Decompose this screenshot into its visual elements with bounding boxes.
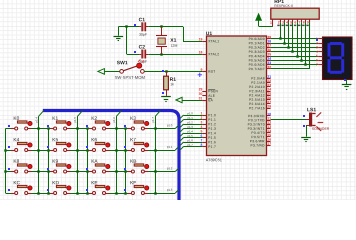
svg-text:P3.5/T1: P3.5/T1 (251, 135, 264, 139)
terminal (input arrow) at EA (176, 97, 182, 102)
svg-text:17: 17 (267, 142, 271, 146)
net label p1.7 (column 3) (151, 117, 155, 123)
svg-text:KB: KB (130, 159, 136, 165)
svg-text:7: 7 (201, 138, 203, 142)
wire P0.6 from U1 to 7-seg display (271, 64, 319, 66)
svg-text:14: 14 (267, 129, 271, 133)
svg-text:1: 1 (201, 111, 203, 115)
svg-text:9: 9 (201, 68, 203, 72)
svg-text:P1.7: P1.7 (208, 145, 216, 149)
wire keypad column 1 (p1.5 net) (77, 111, 82, 193)
junction column 3 row at y=193.0 (154, 192, 156, 194)
svg-text:P0.3/AD3: P0.3/AD3 (249, 50, 265, 54)
svg-text:3: 3 (201, 120, 203, 124)
svg-text:ALE: ALE (208, 94, 215, 98)
pin-end marker display common (344, 79, 346, 81)
junction chain 1 row 0 (47, 127, 49, 129)
wire RP1 pin 4 down to P0.2 net (288, 22, 290, 47)
wire keypad row 2 (p1.2 net) (6, 168, 179, 171)
label KB (130, 159, 136, 165)
pin-end marker K0 (8, 125, 10, 127)
value RESPACK-8 (274, 4, 293, 8)
svg-text:8: 8 (303, 20, 305, 24)
capacitor C2 (139, 50, 148, 59)
push button K7 (128, 142, 149, 151)
svg-text:XTAL1: XTAL1 (208, 39, 219, 43)
label KD (52, 180, 59, 186)
junction RP1 wire / P0.2 wire (287, 46, 289, 48)
RP1 pin 1 (common) stub (272, 19, 274, 26)
value C2 30pF (139, 60, 147, 64)
push button K6 (89, 142, 110, 151)
wire keypad column 3 (p1.7 net) (155, 111, 160, 193)
label K1 (52, 116, 58, 122)
wire P0.1 from U1 to 7-seg display (271, 43, 319, 45)
svg-text:KE: KE (91, 180, 97, 186)
RP1 pin number 1 (270, 21, 272, 25)
junction RP1 wire / P0.3 wire (291, 50, 293, 52)
value LS1 SOUNDER (312, 127, 330, 131)
svg-text:7: 7 (316, 63, 318, 67)
svg-text:K8: K8 (13, 159, 19, 165)
push button KF (128, 185, 149, 194)
svg-text:XTAL2: XTAL2 (208, 52, 219, 56)
label K4 (13, 137, 19, 143)
U1 pin 19 (XTAL1) with pin number (199, 37, 220, 43)
svg-text:P1.4: P1.4 (208, 131, 216, 135)
junction (C1 net / ground branch) (125, 25, 127, 27)
bus P1 (keypad) (43, 111, 179, 201)
wire XTAL2 net: C2 to X1 bottom to U1 pin 18 (127, 54, 203, 56)
U1 pin 7 (P1.6) with pin number (201, 138, 217, 144)
ground (below R1) (161, 96, 171, 102)
wire LS1 to ground (306, 126, 308, 137)
label RP1 (274, 0, 284, 5)
pin-end marker K7 (124, 146, 126, 148)
wire keypad left-pin chain column 1 (48, 129, 50, 194)
svg-text:11: 11 (267, 117, 271, 121)
svg-text:p1.0: p1.0 (167, 123, 173, 127)
label K2 (91, 116, 97, 122)
wire terminal to SW1 (105, 71, 120, 73)
U1 pin 30 (ALE) with pin number (199, 92, 216, 98)
wire RP1 pin 6 down to P0.4 net (297, 22, 299, 56)
RP1 pin 5 stub with pin number (290, 19, 293, 26)
pin-end marker R1 bottom (162, 92, 164, 94)
net label p1.3 (187, 125, 193, 129)
junction column 0 row at y=150.0 (37, 149, 39, 151)
svg-text:P1.0: P1.0 (208, 113, 216, 117)
junction RP1 wire / P0.1 wire (283, 42, 285, 44)
wire ground branch down to C2 net (126, 27, 128, 54)
junction column 2 row at y=128.5 (115, 127, 117, 129)
junction chain 2 row 3 (86, 192, 88, 194)
power terminal VCC to RP1 common (256, 14, 273, 27)
svg-text:P3.1/TXD: P3.1/TXD (248, 118, 265, 122)
U1 pin 36 (P0.3/AD3) with pin number (249, 48, 272, 54)
wire RP1 pin 2 down to P0.0 net (280, 22, 282, 39)
svg-text:5: 5 (290, 20, 292, 24)
display pin 1 (316, 37, 322, 41)
junction column 3 row at y=171.5 (154, 170, 156, 172)
svg-text:p1.4: p1.4 (187, 129, 193, 133)
svg-text:2: 2 (278, 20, 280, 24)
junction column 0 row at y=193.0 (37, 192, 39, 194)
junction (RST net / R1 top) (165, 70, 167, 72)
svg-text:P0.5/AD5: P0.5/AD5 (249, 58, 265, 62)
wire terminal to U1 EA pin 31 (182, 100, 202, 102)
SW1 momentary marks (138, 60, 144, 63)
wire keypad left-pin chain column 3 (125, 129, 127, 194)
wire bus entry to U1 P1.1 (180, 120, 202, 123)
junction column 1 row at y=171.5 (76, 170, 78, 172)
svg-text:19: 19 (199, 37, 203, 41)
label KA (91, 159, 98, 165)
wire XTAL1 net: ground to C1 to X1 to U1 pin 19 (118, 27, 202, 42)
RP1 pin 9 stub with pin number (306, 19, 309, 26)
junction column 2 row at y=171.5 (115, 170, 117, 172)
pin-end marker C1 (134, 24, 136, 26)
U1 pin 10 (P3.0/RXD) with pin number (248, 112, 271, 118)
junction column 1 row at y=193.0 (76, 192, 78, 194)
U1 pin 34 (P0.5/AD5) with pin number (249, 57, 272, 63)
wire SW1 to R1 to U1 RST pin 9 (144, 71, 202, 73)
label K5 (52, 137, 58, 143)
pin-end marker R1 top (162, 70, 164, 72)
pin-end marker K4 (8, 146, 10, 148)
junction RP1 wire / P0.4 wire (296, 55, 298, 57)
pin-end marker C2 (134, 51, 136, 53)
junction column 3 row at y=128.5 (154, 127, 156, 129)
display pin 3 (316, 45, 322, 49)
junction RP1 wire / P0.0 wire (279, 37, 281, 39)
pin-end marker K1 (47, 125, 49, 127)
svg-text:P3.7/RD: P3.7/RD (251, 143, 266, 147)
label R1 (170, 77, 177, 83)
svg-text:16: 16 (267, 138, 271, 142)
svg-text:KD: KD (52, 180, 59, 186)
wire bus entry to U1 P1.2 (180, 124, 202, 127)
push button KC (11, 185, 32, 194)
wire keypad left chain (column 0 left pins) (5, 129, 7, 194)
svg-text:5: 5 (316, 54, 318, 58)
pin-end marker K2 (86, 125, 88, 127)
svg-text:7: 7 (299, 20, 301, 24)
svg-text:P2.5/A13: P2.5/A13 (249, 98, 265, 102)
label U1 (206, 31, 213, 37)
junction column 3 row at y=150.0 (154, 149, 156, 151)
U1 pin 6 (P1.5) with pin number (201, 134, 217, 140)
U1 pin 29 (PSEN) with pin number (199, 87, 219, 93)
svg-text:P1.3: P1.3 (208, 127, 216, 131)
junction (C1 right / X1 top / XTAL1) (160, 25, 162, 27)
U1 pin 2 (P1.1) with pin number (201, 116, 217, 122)
svg-text:15: 15 (267, 133, 271, 137)
svg-text:30pF: 30pF (139, 33, 147, 37)
net label p1.3 (row 3) (167, 188, 173, 192)
RP1 pin 4 stub with pin number (286, 19, 289, 26)
svg-text:p1.3: p1.3 (167, 188, 173, 192)
svg-text:3: 3 (316, 45, 318, 49)
U1 pin 26 (P2.5/A13) with pin number (249, 96, 271, 102)
svg-text:1: 1 (270, 21, 272, 25)
wire P3.1 to LS1 (271, 119, 306, 121)
net label p1.4 (column 0) (34, 117, 38, 123)
svg-text:p1.7: p1.7 (151, 117, 155, 123)
junction RP1 wire / P0.6 wire (304, 63, 306, 65)
ground (below LS1) (301, 136, 311, 142)
RP1 pin 2 stub with pin number (277, 19, 280, 26)
svg-text:P0.0/AD0: P0.0/AD0 (249, 37, 265, 41)
junction chain 1 row 2 (47, 170, 49, 172)
net label p1.7 (187, 143, 193, 147)
junction left chain row 2 (4, 170, 6, 172)
wire P0.2 from U1 to 7-seg display (271, 47, 319, 49)
svg-text:K7: K7 (130, 137, 136, 143)
net label p1.6 (column 2) (112, 117, 116, 123)
net label p1.0 (187, 111, 193, 115)
U1 pin 14 (P3.4/T0) with pin number (251, 129, 271, 135)
label K8 (13, 159, 19, 165)
label KC (13, 180, 20, 186)
pin-end marker display pin 1 (316, 39, 318, 41)
wire RP1 pin 7 down to P0.5 net (301, 22, 303, 60)
U1 pin 9 (RST) with pin number (201, 68, 216, 74)
display pin 6 (316, 58, 322, 62)
net label p1.6 (187, 138, 193, 142)
svg-text:P2.7/A15: P2.7/A15 (249, 106, 265, 110)
wire keypad row 1 (p1.1 net) (6, 147, 179, 151)
svg-text:P2.4/A12: P2.4/A12 (249, 93, 265, 97)
U1 pin 12 (P3.2/INT0) with pin number (248, 121, 272, 127)
net label p1.4 (187, 129, 193, 133)
RP1 pin 6 stub with pin number (294, 19, 298, 26)
crystal X1 (156, 27, 167, 54)
svg-text:P3.0/RXD: P3.0/RXD (248, 114, 265, 118)
wire keypad row 0 (p1.0 net) (6, 125, 179, 128)
wire P0.3 from U1 to 7-seg display (271, 51, 319, 53)
svg-text:K2: K2 (91, 116, 97, 122)
svg-text:P2.6/A14: P2.6/A14 (249, 102, 265, 106)
pin-end marker KF (124, 189, 126, 191)
svg-text:5: 5 (201, 129, 203, 133)
7-segment display body (323, 37, 353, 80)
junction chain 1 row 1 (47, 149, 49, 151)
wire bus entry to U1 P1.3 (180, 129, 202, 132)
svg-text:1k: 1k (170, 82, 174, 86)
U1 pin 32 (P0.7/AD7) with pin number (249, 65, 272, 71)
svg-text:p1.4: p1.4 (34, 117, 38, 123)
svg-text:13: 13 (267, 125, 271, 129)
7-segment digit 8 (lit segments) (328, 42, 345, 74)
label K9 (52, 159, 58, 165)
svg-text:4: 4 (286, 20, 288, 24)
pin-end marker KC (8, 189, 10, 191)
svg-text:SOUNDER: SOUNDER (312, 127, 330, 131)
pin-end marker LS1 bottom (303, 125, 305, 127)
svg-text:10: 10 (267, 112, 271, 116)
pin-end marker K5 (47, 146, 49, 148)
wire keypad column 0 (p1.4 net) (39, 111, 44, 193)
svg-text:P2.0/A8: P2.0/A8 (251, 76, 265, 80)
junction chain 2 row 0 (86, 127, 88, 129)
display pin 4 (316, 50, 322, 54)
net label p1.1 (row 1) (167, 145, 173, 149)
push button KE (89, 185, 110, 194)
svg-text:4: 4 (316, 50, 318, 54)
RP1 pin 3 stub with pin number (281, 19, 284, 26)
svg-text:p1.6: p1.6 (187, 138, 193, 142)
junction chain 2 row 1 (86, 149, 88, 151)
resistor pack RP1 (271, 8, 319, 19)
U1 pin 28 (P2.7/A15) with pin number (249, 104, 271, 110)
svg-text:p1.5: p1.5 (187, 134, 193, 138)
svg-text:LS1: LS1 (307, 107, 316, 113)
display pin 7 (316, 63, 322, 67)
U1 pin 24 (P2.3/A11) with pin number (249, 87, 271, 93)
junction RP1 wire / P0.5 wire (300, 59, 302, 61)
wire bus entry to U1 P1.0 (180, 115, 202, 118)
junction column 0 row at y=128.5 (37, 127, 39, 129)
junction column 2 row at y=150.0 (115, 149, 117, 151)
svg-text:AT89C51: AT89C51 (206, 157, 222, 162)
pin-end marker KE (86, 189, 88, 191)
resistor R1 (164, 71, 169, 95)
svg-text:p1.7: p1.7 (187, 143, 193, 147)
svg-text:28: 28 (267, 104, 271, 108)
wire P0.7 from U1 to RP1 (271, 68, 310, 70)
pin-end marker LS1 top (303, 115, 305, 117)
SW1 red actuator ball (137, 63, 142, 68)
svg-text:EA: EA (208, 98, 213, 102)
U1 pin 37 (P0.2/AD2) with pin number (249, 44, 272, 50)
U1 pin 5 (P1.4) with pin number (201, 129, 217, 135)
ground (below display) (342, 80, 352, 90)
pin-end marker KA (86, 168, 88, 170)
sounder LS1 (306, 112, 323, 131)
svg-text:P0.7/AD7: P0.7/AD7 (249, 67, 265, 71)
junction left chain row 1 (4, 149, 6, 151)
value SW1 SW-SPST-MOM (115, 75, 146, 80)
U1 pin 33 (P0.6/AD6) with pin number (249, 61, 272, 67)
label K3 (130, 116, 136, 122)
svg-text:P3.2/INT0: P3.2/INT0 (248, 122, 265, 126)
junction chain 3 row 3 (124, 192, 126, 194)
svg-text:24: 24 (267, 87, 271, 91)
svg-text:P1.6: P1.6 (208, 140, 216, 144)
svg-text:K4: K4 (13, 137, 19, 143)
wire P0.4 from U1 to 7-seg display (271, 56, 319, 58)
wire RP1 pin 8 down to P0.6 net (305, 22, 307, 64)
wire keypad row 3 (p1.3 net) (6, 190, 179, 194)
svg-text:K1: K1 (52, 116, 58, 122)
U1 pin 39 (P0.0/AD0) with pin number (249, 35, 272, 41)
RP1 pin 7 stub with pin number (298, 19, 301, 26)
U1 pin 1 (P1.0) with pin number (201, 111, 217, 117)
label K6 (91, 137, 97, 143)
U1 pin 31 (EA) with pin number (199, 96, 214, 102)
op-amp-style body: microcontroller U1 AT89C51 (207, 36, 267, 156)
U1 pin 35 (P0.4/AD4) with pin number (249, 52, 272, 58)
net label p1.2 (row 2) (167, 166, 173, 170)
display pin 5 (316, 54, 322, 58)
pin-end marker KD (47, 189, 49, 191)
svg-text:P0.2/AD2: P0.2/AD2 (249, 46, 265, 50)
push button K5 (50, 142, 71, 151)
push button K9 (50, 164, 71, 173)
value C1 30pF (139, 33, 147, 37)
wire P0.5 from U1 to 7-seg display (271, 60, 319, 62)
svg-text:p1.5: p1.5 (73, 117, 77, 123)
svg-text:P2.2/A10: P2.2/A10 (249, 85, 265, 89)
switch SW1 (120, 66, 144, 73)
net label p1.1 (187, 116, 193, 120)
pin-end marker K8 (8, 168, 10, 170)
svg-text:p1.6: p1.6 (112, 117, 116, 123)
svg-text:p1.1: p1.1 (187, 116, 193, 120)
svg-text:2: 2 (316, 41, 318, 45)
svg-text:p1.2: p1.2 (187, 120, 193, 124)
U1 pin 23 (P2.2/A10) with pin number (249, 83, 271, 89)
svg-text:R1: R1 (170, 77, 177, 83)
svg-text:P3.3/INT1: P3.3/INT1 (248, 127, 265, 131)
svg-text:P1.1: P1.1 (208, 118, 216, 122)
svg-text:p1.1: p1.1 (167, 145, 173, 149)
junction chain 3 row 1 (124, 149, 126, 151)
push button K4 (11, 142, 32, 151)
svg-text:P0.6/AD6: P0.6/AD6 (249, 63, 265, 67)
svg-text:23: 23 (267, 83, 271, 87)
wire bus entry to U1 P1.5 (180, 138, 202, 141)
pin-end marker K9 (47, 168, 49, 170)
svg-text:U1: U1 (206, 31, 213, 37)
svg-text:P2.3/A11: P2.3/A11 (249, 89, 264, 93)
U1 pin 8 (P1.7) with pin number (201, 143, 217, 149)
U1 pin 22 (P2.1/A9) with pin number (251, 79, 271, 85)
svg-text:31: 31 (199, 96, 203, 100)
svg-text:C1: C1 (139, 17, 146, 23)
wire bus entry to U1 P1.4 (180, 133, 202, 136)
svg-text:25: 25 (267, 92, 271, 96)
svg-text:29: 29 (199, 87, 203, 91)
svg-text:KC: KC (13, 180, 20, 186)
label LS1 (307, 107, 316, 113)
U1 pin 13 (P3.3/INT1) with pin number (248, 125, 272, 131)
value U1 AT89C51 (206, 157, 222, 162)
label C2 (139, 45, 146, 51)
svg-text:9: 9 (307, 20, 309, 24)
svg-text:P2.1/A9: P2.1/A9 (251, 81, 265, 85)
U1 pin 15 (P3.5/T1) with pin number (251, 133, 271, 139)
label KF (130, 180, 136, 186)
svg-text:27: 27 (267, 100, 271, 104)
svg-text:K5: K5 (52, 137, 58, 143)
push button K3 (128, 121, 149, 130)
label K0 (13, 116, 19, 122)
wire RP1 pin 3 down to P0.1 net (284, 22, 286, 43)
svg-text:6: 6 (316, 58, 318, 62)
wire bus entry to U1 P1.6 (180, 142, 202, 145)
label KE (91, 180, 97, 186)
svg-text:18: 18 (199, 50, 203, 54)
U1 pin 27 (P2.6/A14) with pin number (249, 100, 271, 106)
svg-text:K6: K6 (91, 137, 97, 143)
U1 pin 25 (P2.4/A12) with pin number (249, 92, 271, 98)
svg-text:12: 12 (267, 121, 271, 125)
svg-text:K3: K3 (130, 116, 136, 122)
label K7 (130, 137, 136, 143)
label X1 (170, 38, 176, 44)
